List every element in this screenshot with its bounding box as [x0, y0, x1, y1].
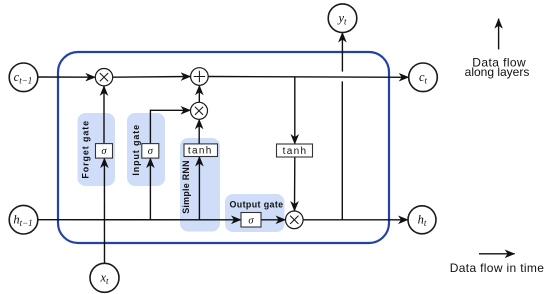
multiply node mult2: [191, 102, 208, 119]
wire tanh1 to mult2: [198, 119, 200, 144]
wire plus to c_t: [208, 76, 409, 79]
svg-text:Output gate: Output gate: [230, 199, 284, 209]
wire mult3 to h_t: [303, 219, 408, 221]
svg-text:Simple RNN: Simple RNN: [181, 160, 191, 214]
output gate highlight box: [225, 194, 285, 232]
LSTM cell boundary: [58, 52, 389, 243]
node h_{t-1}: [9, 205, 38, 234]
wire x_t up to forget sigma: [103, 158, 105, 263]
forget gate highlight box: [78, 113, 116, 186]
tanh2 box: [277, 144, 313, 157]
simple RNN highlight box: [180, 138, 220, 232]
node y_t: [328, 4, 357, 33]
svg-text:along layers: along layers: [465, 65, 530, 79]
node c_t: [409, 63, 438, 92]
svg-text:tanh: tanh: [283, 146, 308, 157]
svg-text:Forget gate: Forget gate: [81, 120, 91, 179]
output gate sigma box: [241, 213, 261, 228]
wire input sigma elbow to mult2: [150, 110, 190, 143]
wire continues above c-line up to y_t: [341, 33, 343, 72]
wire h-line branch to tanh1: [198, 157, 200, 220]
wire mult2 to plus: [198, 85, 200, 102]
svg-text:σ: σ: [101, 146, 107, 157]
svg-text:Input gate: Input gate: [131, 124, 141, 176]
svg-text:Data flow in time: Data flow in time: [450, 261, 544, 275]
legend arrow right (data flow in time): [479, 253, 515, 255]
node c_{t-1}: [9, 63, 38, 92]
multiply node mult1: [95, 69, 112, 86]
wire c_{t-1} to mult1: [38, 76, 96, 78]
svg-text:σ: σ: [148, 146, 154, 157]
node h_t: [408, 206, 436, 234]
input gate sigma box: [142, 144, 159, 159]
wire h-line junction up to y_t (lower part, gap at c-line crossing): [341, 81, 343, 219]
svg-text:σ: σ: [248, 215, 254, 226]
legend arrow up (data flow along layers): [498, 19, 500, 50]
wire mult1 to plus: [113, 76, 191, 79]
input gate highlight box: [127, 113, 165, 186]
forget gate sigma box: [96, 144, 113, 159]
wire c-line branch down to tanh2: [294, 77, 296, 144]
node x_t: [90, 263, 119, 292]
wire tanh2 down to mult3: [294, 157, 296, 211]
multiply node mult3: [286, 211, 304, 229]
wire forget sigma to mult1: [103, 86, 105, 144]
wire output sigma to mult3: [261, 219, 286, 221]
add node plus: [191, 68, 209, 86]
wire h_{t-1} to output sigma: [38, 219, 241, 221]
tanh1 box (simple RNN): [184, 144, 218, 157]
wire h-line branch to input sigma: [149, 158, 151, 220]
svg-text:tanh: tanh: [188, 145, 213, 156]
